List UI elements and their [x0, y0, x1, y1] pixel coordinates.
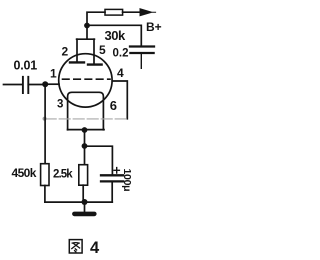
node cathode junction [82, 127, 88, 133]
wire cathode node to bypass cap [85, 146, 113, 174]
node ground junction [82, 199, 88, 205]
anode left leg [76, 39, 78, 61]
wire cathode node down to 2.5k [84, 146, 86, 165]
node plate junction [84, 23, 90, 29]
caption glyph tu [69, 240, 82, 253]
resistor R1 30k body [105, 9, 123, 15]
wire grid node down to 450k [44, 85, 46, 164]
polarity plus sign [114, 168, 119, 173]
B+ terminal arrow [140, 9, 156, 16]
svg-text:5: 5 [99, 43, 106, 57]
grid dashed line [63, 78, 111, 80]
resistor R3 2.5k body [79, 165, 88, 186]
node tie junction (faint) [43, 117, 47, 121]
wire bypass cap to ground rail [111, 183, 113, 203]
tube V1 envelope [59, 54, 112, 107]
svg-text:B+: B+ [146, 20, 162, 34]
svg-text:2.5k: 2.5k [53, 169, 73, 181]
capacitor C1 0.01 plates [23, 77, 28, 93]
svg-text:0.01: 0.01 [14, 58, 38, 72]
wire ground rail [45, 201, 112, 203]
wire grid tie line to pin 4 (faint) [45, 118, 127, 120]
wire output open end [140, 54, 142, 68]
svg-text:30k: 30k [105, 28, 126, 43]
wire input cap to grid node [28, 84, 45, 86]
svg-text:1: 1 [50, 67, 57, 81]
svg-text:0.2: 0.2 [113, 48, 129, 60]
anode right plate bar [88, 63, 102, 65]
anode right leg [93, 39, 95, 63]
wire 450k to ground rail [44, 186, 46, 203]
svg-text:4: 4 [90, 239, 100, 257]
svg-text:450k: 450k [12, 166, 37, 180]
wire plate node down to anode [86, 26, 88, 39]
wire plate node to output cap [87, 25, 141, 45]
wire 30k to B+ arrow [123, 11, 140, 13]
anode left plate bar [70, 61, 84, 63]
wire plate lead top corner to 30k [87, 12, 105, 25]
svg-text:100μ: 100μ [121, 169, 133, 192]
svg-text:6: 6 [110, 98, 117, 113]
svg-text:4: 4 [117, 66, 124, 80]
svg-text:3: 3 [57, 99, 63, 111]
wire tube pin 4 [112, 81, 127, 119]
wire input left [4, 84, 23, 86]
node grid junction [42, 81, 48, 87]
capacitor C3 100u plates [101, 175, 123, 181]
node cathode lower junction [82, 143, 88, 149]
capacitor C2 0.2 plates [130, 47, 154, 54]
svg-text:2: 2 [62, 45, 69, 59]
wire cathode down [84, 130, 86, 146]
wire 2.5k to ground rail [82, 185, 84, 202]
cathode cup [68, 92, 104, 130]
resistor R2 450k body [41, 164, 49, 186]
anode top bar [77, 38, 95, 40]
cathode bottom bar [68, 129, 104, 131]
ground [84, 202, 86, 212]
wire grid node to tube pin 1 [45, 83, 59, 85]
